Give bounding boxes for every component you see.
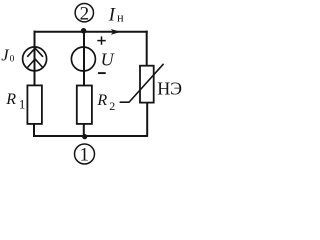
nonlinear element NE box	[140, 66, 154, 103]
nonlinear element NE diagonal tail	[120, 101, 129, 103]
wire right branch upper stub (NE branch)	[146, 31, 148, 67]
node 1 circle	[75, 144, 95, 164]
wire left branch lower stub	[33, 123, 35, 137]
junction dot at node 2	[81, 28, 87, 34]
current source J0 circle	[23, 47, 47, 71]
svg-text:1: 1	[79, 145, 89, 166]
svg-text:н: н	[117, 10, 124, 24]
label minus sign of U	[98, 72, 106, 74]
wire bottom bus node1	[33, 135, 148, 137]
svg-text:R: R	[96, 92, 107, 109]
wire right branch lower stub	[146, 102, 148, 137]
resistor R1	[27, 85, 42, 124]
label plus sign of U	[97, 36, 105, 44]
junction dot at node 1	[82, 134, 87, 139]
current source J0 arrow chevron upper	[27, 48, 43, 57]
voltage source U circle	[71, 47, 95, 71]
current arrow In on top wire	[111, 29, 121, 35]
svg-text:J: J	[1, 45, 9, 64]
svg-text:R: R	[5, 91, 16, 108]
wire left branch vertical (J0/R1 branch)	[34, 31, 36, 87]
wire middle branch vertical (U/R2 branch)	[83, 31, 85, 87]
wire top bus node2	[34, 31, 148, 33]
svg-text:I: I	[108, 6, 116, 26]
node 2 circle	[75, 4, 93, 22]
nonlinear element NE diagonal	[129, 64, 164, 103]
svg-text:U: U	[101, 50, 115, 70]
wire middle branch lower stub	[83, 123, 85, 137]
current source J0 arrow chevron lower	[28, 59, 43, 68]
svg-text:2: 2	[109, 99, 115, 113]
svg-text:2: 2	[80, 3, 90, 24]
svg-text:0: 0	[10, 55, 15, 65]
svg-text:1: 1	[19, 96, 26, 111]
svg-text:НЭ: НЭ	[157, 79, 182, 99]
resistor R2	[77, 86, 92, 124]
